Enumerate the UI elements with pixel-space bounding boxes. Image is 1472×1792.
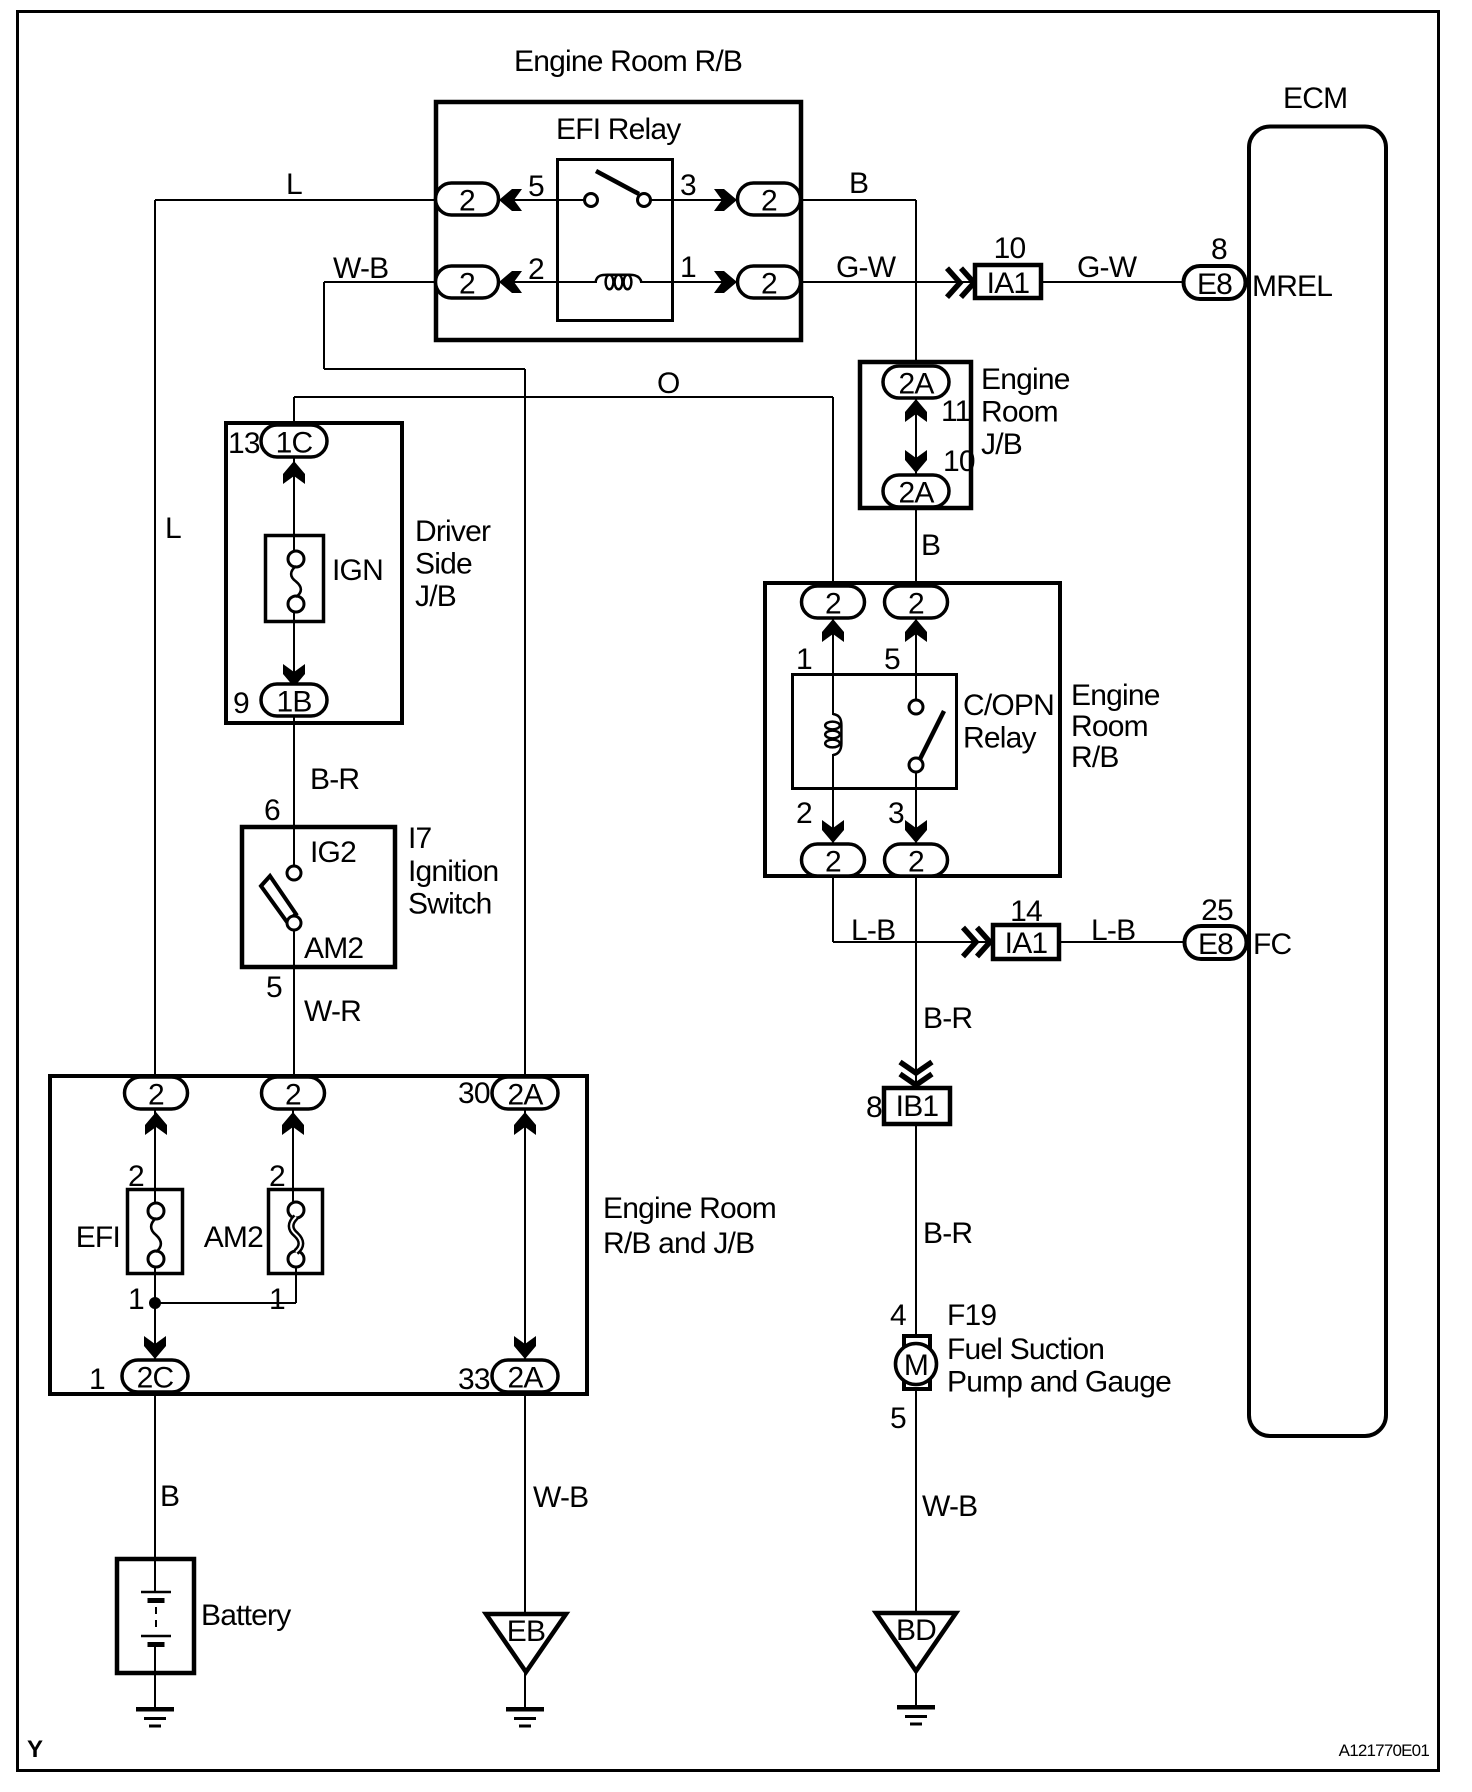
- svg-text:11: 11: [941, 395, 971, 428]
- connector 2 (C/OPN pin 2): [802, 844, 865, 876]
- connector 2A (pin 10): [883, 475, 949, 507]
- connector 2 (EFI fuse): [125, 1077, 188, 1109]
- wire Driver J/B internal lower (IGN fuse to 1B): [293, 602, 295, 685]
- connector 2 (C/OPN pin 5): [885, 586, 948, 618]
- ground point EB triangle: [486, 1614, 566, 1672]
- wire G-W IA1 to E8 MREL: [1043, 281, 1185, 283]
- svg-text:Battery: Battery: [201, 1599, 291, 1632]
- wire L horizontal (battery+ to EFI relay pin 5): [155, 199, 584, 201]
- arrow out pin 3: [714, 189, 737, 211]
- wire W-B vertical down to 2A(30): [524, 369, 526, 1078]
- svg-text:F19: F19: [947, 1299, 996, 1332]
- svg-text:5: 5: [884, 643, 900, 676]
- svg-text:Ignition: Ignition: [408, 855, 498, 888]
- svg-text:MREL: MREL: [1252, 270, 1332, 303]
- svg-text:5: 5: [528, 170, 544, 203]
- wire BD triangle to ground: [915, 1671, 917, 1709]
- IG2 contact circle: [287, 866, 301, 880]
- connector IA1 (pin 10): [975, 265, 1041, 298]
- wire L-B C/OPN pin 2 down: [832, 860, 834, 942]
- EFI fuse element: [148, 1203, 164, 1219]
- ignition switch blade: [261, 876, 296, 922]
- svg-text:AM2: AM2: [204, 1221, 263, 1254]
- svg-text:Driver: Driver: [415, 515, 491, 548]
- C/OPN relay inner box: [793, 675, 957, 789]
- svg-text:ECM: ECM: [1283, 82, 1347, 115]
- svg-text:4: 4: [890, 1299, 906, 1332]
- C/OPN Engine Room R/B box: [765, 583, 1060, 876]
- arrow into 2A branch: [514, 1112, 536, 1135]
- arrow into 1C: [283, 461, 305, 484]
- arrow into AM2 fuse branch: [282, 1112, 304, 1135]
- arrow into pin 2: [499, 271, 522, 293]
- wire Engine Room J/B internal: [915, 396, 917, 476]
- arrow into EFI fuse branch: [145, 1112, 167, 1135]
- wire C/OPN coil branch upper: [832, 602, 834, 715]
- wire B 2C to battery: [154, 1392, 156, 1592]
- splice chevrons into IA1: [947, 268, 960, 297]
- Engine Room R/B and J/B box: [50, 1076, 587, 1394]
- wire O horizontal: [294, 396, 833, 398]
- svg-text:2: 2: [908, 588, 924, 621]
- wire G-W relay pin 1 to IA1: [640, 281, 975, 283]
- wire battery to ground: [154, 1646, 156, 1709]
- svg-text:W-R: W-R: [304, 995, 361, 1028]
- ground (battery): [136, 1707, 174, 1712]
- arrow into 2C: [144, 1336, 166, 1359]
- svg-text:A121770E01: A121770E01: [1339, 1741, 1430, 1760]
- svg-text:3: 3: [680, 169, 696, 202]
- wire fuse link jumper: [155, 1302, 296, 1304]
- connector 2 (AM2 fuse): [262, 1077, 325, 1109]
- EFI relay coil: [596, 275, 642, 283]
- svg-text:J/B: J/B: [415, 580, 456, 613]
- arrow into 2A(33): [514, 1336, 536, 1359]
- EFI relay switch contact circles: [585, 194, 598, 207]
- connector 1B: [261, 684, 327, 716]
- svg-text:B: B: [921, 529, 940, 562]
- ECM block: [1249, 127, 1386, 1437]
- svg-text:2: 2: [908, 846, 924, 879]
- C/OPN relay coil: [833, 714, 841, 755]
- connector 2A (pin 33): [492, 1360, 558, 1392]
- svg-text:R/B and J/B: R/B and J/B: [603, 1227, 754, 1260]
- fuel pump bracket: [904, 1336, 930, 1389]
- wire B vertical down to Engine Room J/B: [915, 200, 917, 364]
- svg-text:C/OPN: C/OPN: [963, 689, 1054, 722]
- svg-text:2: 2: [796, 797, 812, 830]
- IGN fuse box: [266, 536, 324, 622]
- svg-text:W-B: W-B: [922, 1490, 977, 1523]
- wire EFI relay switch to B corner: [650, 199, 916, 201]
- wire W-B 2A(33) to EB: [524, 1392, 526, 1614]
- svg-text:2: 2: [825, 588, 841, 621]
- svg-text:IGN: IGN: [332, 554, 383, 587]
- connector 2 (relay pin 1): [738, 266, 801, 298]
- svg-text:2A: 2A: [507, 1362, 543, 1395]
- svg-text:8: 8: [1211, 233, 1227, 266]
- svg-text:Y: Y: [27, 1736, 43, 1763]
- svg-text:1: 1: [680, 251, 696, 284]
- svg-text:Room: Room: [981, 396, 1058, 429]
- wire C/OPN switch lower branch: [915, 772, 917, 845]
- svg-text:8: 8: [866, 1091, 882, 1124]
- wire 2A(30) to 2A(33): [524, 1110, 526, 1360]
- svg-text:2: 2: [761, 268, 777, 301]
- wire L-B IA1 to E8 FC: [1061, 941, 1185, 943]
- svg-text:IA1: IA1: [987, 267, 1030, 300]
- wire O left drop to 1C: [293, 397, 295, 426]
- wire B-R 1B to ignition switch IG2: [293, 715, 295, 873]
- battery box: [117, 1559, 194, 1673]
- arrow down C/OPN pin 2: [822, 820, 844, 843]
- arrow into pin 5: [499, 189, 522, 211]
- AM2 contact circle: [287, 916, 301, 930]
- svg-text:W-B: W-B: [533, 1481, 588, 1514]
- wire EFI fuse column upper: [154, 1110, 156, 1213]
- svg-text:1: 1: [796, 643, 812, 676]
- svg-text:Pump and Gauge: Pump and Gauge: [947, 1366, 1171, 1399]
- svg-text:B-R: B-R: [923, 1217, 972, 1250]
- svg-text:I7: I7: [408, 822, 432, 855]
- svg-text:O: O: [657, 367, 680, 400]
- connector 1C: [261, 425, 327, 457]
- Engine Room J/B box: [860, 362, 971, 508]
- connector IA1 (pin 14): [993, 925, 1059, 959]
- svg-text:EB: EB: [507, 1615, 545, 1648]
- arrow up pin 11: [905, 399, 927, 422]
- connector 2A (pin 30): [492, 1077, 558, 1109]
- Engine Room R/B box: [436, 102, 801, 340]
- arrow down C/OPN pin 3: [905, 820, 927, 843]
- svg-text:Switch: Switch: [408, 888, 492, 921]
- svg-text:5: 5: [266, 971, 282, 1004]
- ground point BD triangle: [876, 1613, 956, 1671]
- svg-text:G-W: G-W: [836, 251, 897, 284]
- connector 2 (relay pin 5): [436, 183, 499, 215]
- connector 2 (C/OPN pin 1): [802, 586, 865, 618]
- svg-text:Side: Side: [415, 548, 472, 581]
- arrow up C/OPN pin 5: [905, 619, 927, 642]
- svg-text:EFI Relay: EFI Relay: [556, 113, 681, 146]
- svg-text:5: 5: [890, 1402, 906, 1435]
- wire B 2A(10) to C/OPN relay pin 5: [915, 506, 917, 700]
- ground (EB): [506, 1707, 544, 1712]
- EFI relay inner box: [558, 160, 673, 321]
- wire EFI fuse column lower: [154, 1257, 156, 1360]
- svg-text:W-B: W-B: [333, 252, 388, 285]
- wire W-B horizontal jog: [324, 368, 525, 370]
- connector 2 (relay pin 3): [738, 183, 801, 215]
- C/OPN switch blade: [920, 711, 944, 759]
- svg-text:1B: 1B: [276, 686, 311, 719]
- IGN fuse element: [288, 551, 304, 567]
- splice chevrons into IA1 (FC): [963, 928, 976, 957]
- connector E8 pin 25: [1185, 926, 1247, 959]
- connector 2C: [122, 1360, 188, 1392]
- svg-text:L-B: L-B: [1091, 914, 1135, 947]
- svg-text:B: B: [160, 1480, 179, 1513]
- arrow down pin 10: [905, 450, 927, 473]
- wire B-R C/OPN pin 3 down to IB1: [915, 860, 917, 1088]
- svg-text:L: L: [286, 168, 302, 201]
- svg-text:2A: 2A: [898, 477, 934, 510]
- I7 ignition switch box: [242, 827, 395, 967]
- connector IB1 (pin 8): [884, 1088, 950, 1124]
- svg-text:E8: E8: [1198, 928, 1233, 961]
- wire B-R IB1 to fuel pump: [915, 1124, 917, 1336]
- svg-text:B: B: [849, 167, 868, 200]
- svg-text:2A: 2A: [898, 368, 934, 401]
- svg-text:Fuel Suction: Fuel Suction: [947, 1333, 1104, 1366]
- wire Driver J/B internal upper (1C to IGN fuse): [293, 458, 295, 561]
- junction dot: [149, 1297, 161, 1309]
- svg-text:2C: 2C: [137, 1362, 174, 1395]
- svg-text:IA1: IA1: [1005, 927, 1048, 960]
- svg-text:1: 1: [128, 1283, 144, 1316]
- svg-text:AM2: AM2: [304, 932, 363, 965]
- svg-text:1: 1: [89, 1363, 105, 1396]
- arrow up C/OPN pin 1: [822, 619, 844, 642]
- svg-text:BD: BD: [896, 1614, 936, 1647]
- AM2 fuse element: [288, 1202, 304, 1218]
- wire EB triangle to ground: [524, 1671, 526, 1709]
- svg-text:33: 33: [458, 1363, 490, 1396]
- svg-text:10: 10: [994, 232, 1026, 265]
- svg-text:E8: E8: [1197, 268, 1232, 301]
- connector 2 (C/OPN pin 3): [885, 844, 948, 876]
- wire L-B horizontal to IA1: [833, 941, 991, 943]
- AM2 fuse box: [269, 1190, 323, 1274]
- svg-text:30: 30: [458, 1077, 490, 1110]
- svg-text:EFI: EFI: [76, 1221, 120, 1254]
- ground (BD): [897, 1705, 935, 1710]
- wire AM2 fuse column upper: [292, 1110, 294, 1212]
- svg-text:Relay: Relay: [963, 722, 1036, 755]
- svg-text:M: M: [904, 1349, 928, 1382]
- svg-text:2: 2: [825, 846, 841, 879]
- fuel pump motor M: [896, 1344, 937, 1385]
- wire ignition switch AM2 to W-R: [293, 930, 295, 1078]
- svg-text:1: 1: [269, 1283, 285, 1316]
- arrow into 1B: [283, 664, 305, 687]
- svg-text:2: 2: [761, 185, 777, 218]
- wire C/OPN coil branch lower: [832, 754, 834, 845]
- svg-text:J/B: J/B: [981, 428, 1022, 461]
- svg-text:9: 9: [233, 687, 249, 720]
- svg-text:2: 2: [459, 185, 475, 218]
- svg-text:2: 2: [285, 1079, 301, 1112]
- EFI fuse box: [128, 1190, 183, 1274]
- svg-text:Engine: Engine: [981, 363, 1070, 396]
- svg-text:IG2: IG2: [310, 836, 356, 869]
- wire W-B from relay pin 2 to corner: [324, 281, 597, 283]
- svg-text:IB1: IB1: [896, 1090, 939, 1123]
- svg-text:25: 25: [1201, 894, 1233, 927]
- svg-text:L-B: L-B: [851, 914, 895, 947]
- connector 2A (pin 11): [883, 366, 949, 398]
- svg-text:3: 3: [888, 797, 904, 830]
- connector 2 (relay pin 2): [436, 266, 499, 298]
- svg-text:6: 6: [264, 794, 280, 827]
- svg-text:Engine Room R/B: Engine Room R/B: [514, 45, 742, 78]
- svg-text:G-W: G-W: [1077, 251, 1138, 284]
- svg-text:Engine: Engine: [1071, 679, 1160, 712]
- wire W-B fuel pump to BD ground: [915, 1391, 917, 1614]
- svg-text:14: 14: [1010, 895, 1042, 928]
- svg-text:1C: 1C: [276, 427, 313, 460]
- svg-text:B-R: B-R: [310, 763, 359, 796]
- svg-text:2: 2: [148, 1079, 164, 1112]
- svg-text:13: 13: [228, 427, 260, 460]
- battery cell plates: [141, 1591, 171, 1593]
- svg-text:Engine Room: Engine Room: [603, 1192, 776, 1225]
- C/OPN switch contact circles: [909, 700, 923, 714]
- arrow out pin 1: [714, 271, 737, 293]
- svg-text:FC: FC: [1253, 928, 1292, 961]
- svg-text:10: 10: [943, 445, 975, 478]
- wire L vertical (left rail down to EFI fuse): [154, 200, 156, 1078]
- wire W-B vertical drop: [323, 282, 325, 369]
- svg-text:R/B: R/B: [1071, 741, 1119, 774]
- svg-text:B-R: B-R: [923, 1002, 972, 1035]
- svg-text:Room: Room: [1071, 710, 1148, 743]
- connector E8 pin 8: [1184, 266, 1246, 299]
- svg-text:2: 2: [459, 268, 475, 301]
- wire AM2 fuse column lower: [295, 1257, 297, 1303]
- Driver Side J/B box: [226, 423, 402, 723]
- svg-text:2: 2: [528, 253, 544, 286]
- EFI relay switch blade: [596, 171, 639, 194]
- splice chevrons into IB1: [900, 1062, 932, 1073]
- wire O right drop to C/OPN relay pin 1: [832, 397, 834, 587]
- svg-text:2A: 2A: [507, 1079, 543, 1112]
- svg-text:L: L: [165, 512, 181, 545]
